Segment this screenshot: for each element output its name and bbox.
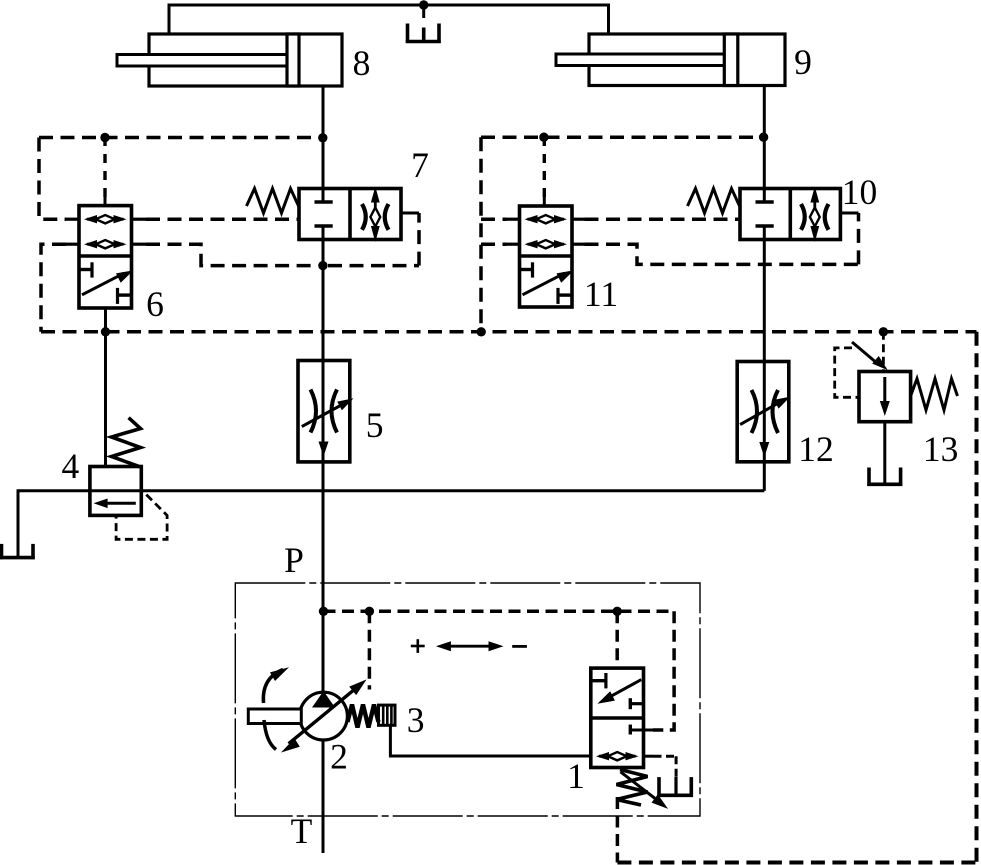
wire dashed pilot up to valve 10 right port <box>857 213 861 264</box>
wire dashed down to valve 1 top <box>615 611 619 668</box>
valve 4 spring <box>112 418 141 467</box>
valve 3 spring <box>348 705 379 728</box>
svg-text:5: 5 <box>366 405 384 445</box>
wire valve 3 to valve 1 <box>390 725 590 756</box>
tank T0 drain at top <box>422 5 425 18</box>
valve 11 port stubs <box>507 218 520 221</box>
valve 5 flow arrow down <box>319 442 329 457</box>
wire dashed below valve 1 spring <box>616 797 620 863</box>
svg-text:11: 11 <box>584 274 618 314</box>
valve 6 port stubs <box>65 218 79 221</box>
cylinder 9 rod <box>556 54 725 66</box>
wire valve 13 to tank <box>883 422 886 483</box>
wire dashed jog to valve 1 middle port <box>653 611 674 730</box>
pump unit enclosure (chain line) <box>235 583 700 816</box>
valve 10 throttle flow arrow <box>813 195 816 237</box>
pump control polarity annotation <box>411 645 425 648</box>
wire valve 6 top pilot stem <box>104 197 107 206</box>
valve 7 right port stub <box>401 212 419 215</box>
valve 7 blocked port top <box>315 200 333 204</box>
wire valve 11 top pilot stem <box>543 197 546 206</box>
wire dashed right border vertical <box>975 332 979 863</box>
wire valve 6 bottom line to valve 4 <box>104 308 107 467</box>
wire dashed lower pilot bus <box>41 330 977 334</box>
valve 4 body <box>90 467 141 516</box>
node junction valve 6 line with lower dashed bus <box>101 327 110 336</box>
wire dashed pilot valve6 lower to below valve 7 <box>146 244 317 265</box>
wire dashed pilot valve6 to valve7 spring side <box>146 217 299 221</box>
pump 2 outlet triangle <box>312 691 335 708</box>
valve 7 throttle arcs <box>362 204 366 230</box>
wire dashed stubs to valve 11 left ports <box>481 217 507 221</box>
wire dashed pilot valve11 to valve10 spring side <box>585 217 741 221</box>
tank T4 at bottom left <box>0 544 3 559</box>
valve 13 spring <box>911 379 958 410</box>
valve 6 pilot actuation arrow <box>82 273 124 295</box>
wire dashed pilot left upper vertical <box>39 138 66 220</box>
valve 1 spring adjust arrow <box>621 772 660 802</box>
valve 5 adjust arrow <box>302 403 345 427</box>
node junction below valve 7 pilot tap <box>318 261 327 270</box>
valve 11 closed position blocked port upper-left <box>520 268 533 271</box>
valve 1 blocked port upper-left <box>591 679 605 682</box>
wire dashed valve 1 right port to tank <box>675 756 678 779</box>
valve 11 upper flow arrow <box>528 218 565 221</box>
valve 1 middle port to jog <box>629 725 632 735</box>
cylinder 9 piston <box>724 34 738 86</box>
wire dashed pilot box top line (left) <box>39 136 323 140</box>
wire dashed pilot box top line (right) <box>481 135 764 139</box>
tank T13 below valve 13 <box>867 468 871 487</box>
pump 2 circle <box>300 692 348 740</box>
wire top manifold line between cylinders <box>169 5 609 34</box>
wire main horizontal line to valve 4 and tank <box>18 491 764 557</box>
cylinder 8 rod <box>117 55 287 67</box>
pump 2 variable displacement arrow <box>289 686 359 744</box>
svg-text:3: 3 <box>407 700 425 740</box>
valve 13 body <box>859 372 911 422</box>
cylinder 8 piston <box>287 34 299 86</box>
valve 10 blocked port top <box>756 200 774 204</box>
node junction right-box vertical with lower dashed bus <box>477 327 486 336</box>
wire main line below valve 7 <box>322 226 325 853</box>
node junction pump control above valve 1 <box>613 607 622 616</box>
node pilot junction above valve 11 <box>539 133 548 142</box>
pump 2 drive shaft <box>248 709 301 724</box>
wire dashed pump control bus <box>324 610 675 614</box>
valve 1 lower flow arrow <box>599 755 636 758</box>
cylinder 9 body <box>589 34 785 86</box>
wire dashed from bus to valve 13 <box>882 332 885 372</box>
valve 7 spring <box>247 189 300 214</box>
svg-text:4: 4 <box>62 446 80 486</box>
svg-text:7: 7 <box>411 145 429 185</box>
svg-text:9: 9 <box>794 42 812 82</box>
valve 5 body <box>298 361 350 462</box>
valve 11 body <box>520 206 573 307</box>
valve 4 flow arrow <box>100 502 136 505</box>
wire cylinder 9 rod-end line down <box>763 85 766 202</box>
svg-text:12: 12 <box>798 429 834 469</box>
valve 12 body <box>737 362 789 462</box>
valve 10 right port stub <box>840 212 858 215</box>
valve 12 throttle arcs <box>752 390 758 433</box>
pump 2 rotation arrow lower <box>264 720 276 750</box>
svg-text:6: 6 <box>146 284 164 324</box>
valve 4 pilot dashed loop <box>116 495 167 540</box>
pump 2 rotation arrow upper <box>263 670 283 704</box>
tank T1 right of valve 1 spring <box>674 777 677 795</box>
node A junction with left pilot box <box>318 133 327 142</box>
valve 10 body <box>740 189 840 240</box>
valve 7 body <box>299 189 401 240</box>
cylinder 8 body <box>149 34 342 86</box>
valve 1 body <box>591 668 644 767</box>
valve 1 blocked port mid-right <box>629 698 632 709</box>
wire dashed pilot from node to valve 7 right port <box>328 264 419 268</box>
node B junction with right pilot box <box>759 133 768 142</box>
valve 13 adjust arrow <box>852 342 878 364</box>
valve 10 throttle arcs <box>801 204 805 230</box>
svg-text:8: 8 <box>353 43 371 83</box>
valve 11 closed position blocked port lower-right <box>558 293 572 296</box>
svg-text:10: 10 <box>842 172 878 212</box>
valve 6 upper flow arrow <box>87 218 124 221</box>
valve 1 pilot actuation arrow <box>606 680 641 699</box>
svg-text:2: 2 <box>330 737 348 777</box>
wire dashed pilot valve11 lower to below valve 10 <box>585 244 859 264</box>
valve 1 spring <box>617 770 648 806</box>
valve 11 pilot actuation arrow <box>523 273 565 295</box>
wire dashed pilot right-box left vertical <box>479 137 483 332</box>
node pilot junction above valve 6 <box>100 133 109 142</box>
valve 3 actuator box <box>379 705 396 725</box>
svg-text:13: 13 <box>923 429 959 469</box>
node junction lower bus to valve 13 <box>879 327 888 336</box>
valve 13 pilot dashed <box>835 348 859 397</box>
svg-text:T: T <box>291 811 313 851</box>
valve 1 right port stub <box>644 755 654 758</box>
valve 7 throttle flow arrow <box>374 195 377 237</box>
node junction P pilot tap <box>319 607 328 616</box>
valve 10 spring <box>688 189 741 214</box>
valve 12 adjust arrow <box>740 401 782 425</box>
wire main right line below valve 10 <box>763 226 766 491</box>
node top tank junction <box>419 0 428 9</box>
valve 6 lower flow arrow <box>87 243 124 246</box>
valve 6 body <box>79 206 132 308</box>
svg-text:P: P <box>284 540 304 580</box>
wire dashed pilot left lower vertical <box>41 244 66 332</box>
valve 5 throttle arcs <box>311 390 317 433</box>
node junction pump control above valve 3 <box>365 607 374 616</box>
wire dashed bottom border <box>617 861 976 865</box>
valve 11 lower flow arrow <box>528 243 565 246</box>
valve 10 blocked port bottom <box>756 224 774 228</box>
wire dashed down to pump displacement control <box>368 611 372 689</box>
valve 6 closed position blocked port lower-right <box>118 293 132 296</box>
svg-text:1: 1 <box>567 756 585 796</box>
valve 6 closed position blocked port upper-left <box>79 268 92 271</box>
wire cylinder 8 rod-end line down (node A) <box>322 86 325 202</box>
valve 13 flow arrow down <box>883 377 886 409</box>
valve 7 blocked port bottom <box>315 224 333 228</box>
valve 12 flow arrow down <box>759 442 769 457</box>
